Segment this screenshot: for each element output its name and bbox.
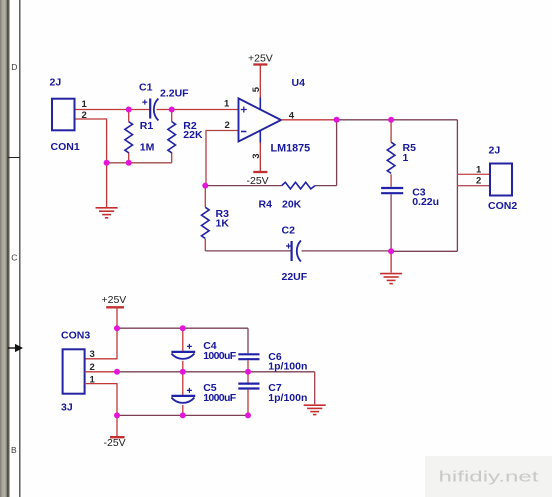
capacitor C2 (polarized)	[286, 241, 301, 262]
wire C2 to ground node	[302, 250, 458, 252]
svg-text:3J: 3J	[61, 402, 73, 414]
svg-text:C2: C2	[282, 225, 296, 237]
svg-text:2: 2	[476, 176, 481, 187]
label CON1	[51, 141, 80, 153]
label 1 (R5 value)	[403, 152, 409, 164]
zone letter D	[11, 62, 17, 72]
label CON2	[488, 200, 517, 212]
node C4 C5 mid junction	[180, 369, 186, 375]
label C6	[268, 351, 282, 363]
label C5	[203, 382, 217, 394]
watermark panel	[425, 456, 552, 497]
pin number 3 (rotated)	[251, 154, 262, 159]
wire ground stem (output ground)	[390, 251, 392, 272]
zone letter C	[11, 253, 17, 263]
label C4	[203, 340, 217, 352]
svg-text:CON3: CON3	[61, 329, 90, 341]
node -25V rail pin1 junction	[114, 412, 120, 418]
svg-text:B: B	[11, 445, 17, 455]
resistor R4	[282, 182, 315, 189]
label LM1875	[271, 143, 311, 155]
svg-text:U4: U4	[292, 77, 306, 89]
label +25V (opamp)	[248, 53, 273, 65]
svg-text:LM1875: LM1875	[271, 143, 311, 155]
resistor R5	[387, 142, 395, 173]
wire CON1 pin2 down to ground net	[75, 119, 107, 163]
svg-text:20K: 20K	[282, 199, 302, 211]
wire CON2 branch vertical	[456, 120, 458, 252]
wire feedback vertical from output	[336, 120, 338, 186]
op-amp U4 triangle	[239, 98, 282, 141]
label 2J (CON2)	[489, 145, 501, 157]
svg-text:2J: 2J	[489, 145, 501, 157]
label C2	[282, 225, 296, 237]
opamp pin5 stub	[259, 98, 261, 110]
svg-text:hifidiy.net: hifidiy.net	[439, 470, 539, 486]
svg-text:+25V: +25V	[248, 53, 273, 65]
svg-text:1M: 1M	[140, 141, 155, 153]
label 3J	[61, 402, 73, 414]
svg-text:1000uF: 1000uF	[203, 392, 237, 404]
svg-text:1: 1	[82, 99, 88, 110]
label -25V (opamp)	[247, 175, 269, 187]
wire ground stem CON1	[106, 163, 108, 207]
wire CON2 pin1	[457, 173, 489, 175]
label R4	[259, 199, 273, 211]
wire R5 to C3	[390, 174, 392, 187]
CON1 pin number 1	[82, 99, 88, 110]
capacitor C4 (polarized) stub top	[182, 328, 184, 351]
wire +25V to CON3 pin3	[85, 307, 117, 359]
CON2 pin number 1	[476, 165, 482, 176]
wire mid rail to ground	[314, 372, 316, 405]
CON3 pin number 2	[90, 362, 95, 373]
label R5	[403, 142, 417, 154]
power bar -25V (supply)	[110, 436, 125, 438]
node feedback junction	[202, 183, 208, 189]
node C4 top junction	[180, 325, 186, 331]
label R3	[216, 208, 230, 220]
svg-text:CON2: CON2	[488, 200, 517, 212]
node ground CON1 junction	[104, 160, 110, 166]
resistor R1	[125, 110, 133, 163]
cursor arrow marker	[8, 344, 23, 352]
node R1 bottom junction	[126, 160, 132, 166]
label R1	[140, 120, 154, 132]
svg-text:1: 1	[403, 152, 409, 164]
capacitor C7	[238, 384, 259, 416]
capacitor C5 (polarized) stub top	[182, 372, 184, 395]
wire opamp -in to feedback node	[206, 131, 238, 186]
wire pin3 to -25V	[259, 143, 261, 173]
wire R5 branch stub	[390, 120, 392, 142]
svg-text:3: 3	[251, 154, 262, 159]
sheet border vertical line	[19, 0, 21, 497]
svg-text:1p/100n: 1p/100n	[268, 392, 307, 404]
watermark hifidiy.net	[439, 470, 539, 486]
svg-text:1000uF: 1000uF	[203, 350, 237, 362]
label 2J (CON1)	[50, 77, 62, 89]
svg-text:R1: R1	[140, 120, 154, 132]
connector CON3	[63, 349, 85, 393]
wire C3 to ground node	[390, 194, 392, 251]
label 1p/100n (C6)	[268, 361, 307, 373]
svg-text:2.2UF: 2.2UF	[160, 88, 189, 100]
opamp minus input mark	[241, 131, 246, 133]
power bar -25V (opamp)	[253, 171, 267, 173]
capacitor C7 stub top	[247, 372, 249, 383]
node R5 top junction	[388, 117, 394, 123]
node output junction	[334, 117, 340, 123]
label 0.22u	[412, 196, 439, 208]
CON2 pin number 2	[476, 176, 481, 187]
label U4	[292, 77, 306, 89]
capacitor C6	[238, 354, 259, 372]
node mid rail pin2 junction	[114, 369, 120, 375]
node C5 bottom junction	[180, 412, 186, 418]
svg-text:2J: 2J	[50, 77, 62, 89]
label R2	[183, 120, 197, 132]
opamp pin number 1	[224, 99, 230, 110]
capacitor C4	[171, 344, 195, 372]
wire output pin4	[281, 119, 337, 121]
resistor R2	[168, 110, 176, 163]
node output ground junction	[388, 248, 394, 254]
wire CON3 pin1 to -25V	[85, 384, 117, 438]
svg-text:1p/100n: 1p/100n	[268, 361, 307, 373]
opamp pin3 stub	[259, 130, 261, 142]
node R1 top junction	[126, 107, 132, 113]
svg-text:22UF: 22UF	[282, 271, 308, 283]
CON3 pin number 3	[90, 349, 95, 360]
label 1000uF (C4)	[203, 350, 237, 362]
wire +25V rail	[117, 327, 248, 329]
pin number 5 (rotated)	[251, 86, 262, 92]
svg-text:2: 2	[82, 110, 87, 121]
label 1M	[140, 141, 155, 153]
ground symbol (supply)	[304, 405, 326, 414]
CON3 pin number 1	[90, 375, 96, 386]
capacitor C3	[381, 188, 403, 193]
label 22UF	[282, 271, 308, 283]
svg-text:CON1: CON1	[51, 141, 80, 153]
opamp plus input mark	[241, 107, 247, 113]
power bar +25V (supply)	[106, 306, 124, 308]
label C1	[139, 82, 153, 94]
label 1000uF (C5)	[203, 392, 237, 404]
svg-text:22K: 22K	[183, 129, 203, 141]
svg-text:+25V: +25V	[102, 294, 127, 306]
capacitor C6 branch from +25V rail	[247, 328, 249, 353]
label 1p/100n (C7)	[268, 392, 307, 404]
label C3	[412, 186, 426, 198]
label 20K	[282, 199, 302, 211]
node C7 bottom junction	[245, 412, 251, 418]
label 1K	[216, 217, 230, 229]
svg-text:D: D	[11, 62, 17, 72]
svg-text:1: 1	[224, 99, 230, 110]
node R2 top junction	[169, 107, 175, 113]
wire +25V to pin5	[259, 65, 261, 98]
sheet border left gray strip	[0, 0, 10, 497]
node C6 C7 mid junction	[245, 369, 251, 375]
label 2.2UF	[160, 88, 189, 100]
wire CON1 pin1 to opamp +in (net IN)	[75, 109, 238, 111]
zone tick	[8, 157, 20, 159]
wire ground run under R1 R2	[107, 162, 172, 164]
connector CON1	[52, 99, 75, 131]
wire CON2 pin2	[457, 185, 489, 187]
opamp pin number 2	[225, 120, 230, 131]
wire bottom rail	[117, 414, 248, 416]
ground symbol near CON1	[96, 208, 118, 218]
svg-text:5: 5	[251, 86, 262, 92]
connector CON2	[490, 164, 512, 196]
label CON3	[61, 329, 90, 341]
label C7	[268, 382, 282, 394]
label +25V (supply)	[102, 294, 127, 306]
node +25V rail pin3 junction	[114, 325, 120, 331]
wire R3 to C2	[205, 250, 291, 252]
capacitor C5	[171, 388, 195, 416]
svg-text:C1: C1	[139, 82, 153, 94]
wire feedback node to R4	[205, 185, 336, 187]
svg-text:1K: 1K	[216, 217, 230, 229]
wire CON3 pin2 to mid rail	[85, 371, 117, 373]
wire mid rail	[117, 371, 315, 373]
zone letter B	[11, 445, 17, 455]
svg-text:C: C	[11, 253, 17, 263]
svg-text:R4: R4	[259, 199, 273, 211]
capacitor C1 (polarized)	[142, 99, 158, 121]
label -25V (supply)	[104, 437, 126, 449]
opamp pin number 4	[289, 110, 295, 121]
svg-text:0.22u: 0.22u	[412, 196, 439, 208]
CON1 pin number 2	[82, 110, 87, 121]
svg-text:-25V: -25V	[104, 437, 126, 449]
ground symbol near C3	[380, 274, 402, 284]
label 22K	[183, 129, 203, 141]
svg-text:2: 2	[225, 120, 230, 131]
svg-text:1: 1	[476, 165, 482, 176]
wire output run to CON2 branch	[337, 119, 458, 121]
svg-text:3: 3	[90, 349, 95, 360]
power bar +25V (opamp)	[253, 63, 267, 65]
resistor R3	[202, 186, 210, 251]
